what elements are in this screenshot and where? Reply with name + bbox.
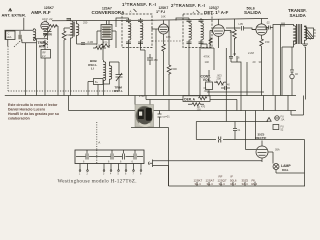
label CONT VOL [201,74,212,82]
svg-text:VOL.: VOL. [203,78,211,82]
dashed gang line to ant trimmer [47,39,49,50]
capacitor series 282 [282,23,284,27]
svg-text:OSC.L: OSC.L [114,89,123,93]
wire right drops to 109.5 [264,96,289,111]
compartment digits [83,160,134,163]
wire det resistor conns [214,48,226,100]
wire rectifier conns [246,150,274,164]
wire det grid/diode [201,31,214,49]
2nd IF trimmer caps [187,20,204,44]
capacitor pack C-D [134,154,136,160]
wire 2nd IF drops [189,44,207,96]
dashed shield link between IF boxes [152,40,183,42]
ground speaker [302,42,308,47]
resistor RF cathode 8.2K [43,30,47,48]
core lines RF transformer [73,22,74,37]
svg-text:Westinghouse modelo H-127T6Z.: Westinghouse modelo H-127T6Z. [58,179,137,185]
padder box osc [88,79,103,96]
wire transformer primary conns [281,25,294,96]
svg-text:RECTIF: RECTIF [256,136,267,140]
svg-text:colaboración: colaboración [8,116,30,120]
resistor output cathode 150 [260,35,270,47]
svg-text:250: 250 [83,21,88,25]
trimmer blob gang link [13,31,36,48]
wires 2nd IF transformer [176,18,201,46]
svg-text:15K: 15K [66,34,71,37]
capacitor 16-40 horizontal [221,84,230,91]
svg-text:1ºTRANSF. F.-I: 1ºTRANSF. F.-I [122,2,156,7]
svg-text:.02: .02 [266,21,270,25]
editorial note red text [8,103,59,121]
svg-text:A: A [98,141,100,145]
label TRIM ANT [38,41,47,49]
svg-text:250: 250 [48,34,53,37]
capacitor pack C-B [111,154,113,160]
wire filament bus [169,185,306,187]
node A dotted riser [97,122,101,150]
tube V4 12SQ7 det [210,19,231,36]
wire top bus B+ [52,18,268,20]
main bus B-minus [5,95,296,97]
warning triangle [267,118,271,122]
resistor det load [216,74,224,85]
1st IF secondary coil [141,23,143,40]
svg-text:2ºTRANSF. F.-I: 2ºTRANSF. F.-I [171,3,205,8]
wires 1st IF transformer [109,18,141,46]
svg-text:3A-4: 3A-4 [207,182,213,186]
svg-text:AMP. R.F: AMP. R.F [31,10,51,15]
svg-text:470: 470 [201,106,206,109]
wire vertical 247 [246,62,248,96]
speaker voice coil [306,28,314,40]
2nd IF secondary coil [201,23,203,40]
resistor below DER [188,103,206,109]
svg-text:SALIDA: SALIDA [244,10,262,15]
svg-text:2.2M: 2.2M [88,41,94,44]
tube V5 50L6 output [252,19,267,35]
wire plug top prong [158,161,263,162]
wire lower-right link [207,92,304,115]
wire vertical 305 [305,47,307,100]
svg-text:.003: .003 [217,74,223,78]
wire RF stage verticals [45,26,58,96]
wire vertical 292 electrolytic branch [291,47,293,96]
capacitor grid converter [81,41,93,44]
svg-text:.5A: .5A [281,119,285,122]
svg-text:ACV .22: ACV .22 [42,17,53,21]
1st IF transformer shield box (dashed) [122,14,152,48]
lower bus line [146,96,237,100]
connector pins row [79,164,142,172]
dashed gang line vertical left [7,46,9,91]
svg-text:450: 450 [154,59,159,62]
svg-text:3A-4: 3A-4 [242,182,248,186]
wire coupling to output [231,56,241,111]
label 35Z5 RECTIF [256,132,267,140]
svg-text:ANT. EXTER.: ANT. EXTER. [2,12,26,17]
trimmer capacitor TRIM ANT [44,27,52,39]
resistor screen 150K [167,65,177,75]
volume control pot [206,70,213,96]
filament tap ticks [197,182,255,186]
resistor 1M grid output [230,30,237,40]
stage label TRANSF SALIDA [288,8,307,18]
svg-text:DET. 1ª A-F: DET. 1ª A-F [204,10,228,15]
wire plug bottom prong [158,140,305,187]
svg-text:DIAL: DIAL [282,168,289,172]
resistor DER. A [183,96,210,102]
label TRIM OSC.L [114,85,123,93]
capacitor .05 det out [229,48,237,62]
capacitor electrolytic 40 [290,70,299,79]
tube base connector box [75,150,144,164]
antenna coil L1 [33,29,35,41]
wire 1st IF drops [129,42,146,96]
wire RF coil connections [64,21,77,96]
svg-text:uc=01: uc=01 [163,115,171,119]
svg-text:HoraEl le da las gracias por s: HoraEl le da las gracias por su [8,112,59,116]
antenna terminal box [5,31,15,40]
wire line to rect filter [196,111,268,150]
value 470 resistor top [100,41,110,48]
svg-text:ANT: ANT [39,45,47,49]
wire output cathode down [261,48,263,96]
wire speaker conns [305,26,307,42]
capacitor pack C-C [123,154,125,160]
svg-text:LI: LI [91,67,94,71]
capacitor mid 147 [147,54,158,65]
tube V6 35Z5 rectifier [256,141,268,159]
capacitor 0.05 coupling [239,22,256,31]
svg-text:3A-4: 3A-4 [230,182,236,186]
svg-text:L05: L05 [239,22,244,26]
resistor screen 15K [62,31,71,40]
svg-text:1M: 1M [230,30,234,34]
svg-text:140: 140 [205,60,210,64]
speaker terminal letters [314,29,316,38]
tube V1 12SK7 RF amp [41,21,49,30]
wire vertical x25 [25,43,27,96]
node A arrow 1st IF [130,9,137,14]
wires output grid [226,19,241,56]
svg-text:2.5M: 2.5M [139,95,145,98]
resistor IF cathode [162,44,166,53]
svg-text:470: 470 [103,41,108,45]
AC plug [148,160,157,168]
wire internal bus of box [76,156,143,158]
capacitor 01 on riser [158,114,171,119]
lamp pilot [273,164,279,170]
wire mid verticals [131,111,169,187]
svg-text:05A: 05A [275,148,280,152]
trimmer TRIM OSC [116,73,123,82]
value labels right mid [204,51,262,64]
svg-text:C: C [314,35,316,38]
switch box [273,125,284,132]
svg-text:16K: 16K [161,14,166,18]
wire lower bus drops [200,96,237,122]
svg-text:SALIDA: SALIDA [290,13,307,18]
svg-text:16K: 16K [166,35,171,39]
pin numbers [79,174,142,176]
capacitor pack C-A [86,154,88,160]
svg-text:150K: 150K [171,67,177,71]
wire osc trimmer conns [118,62,120,91]
svg-text:DER. A: DER. A [184,97,195,101]
svg-text:Daniel Horacio Lucero: Daniel Horacio Lucero [8,107,45,111]
capacitor filter branch [233,122,241,140]
wire cap top ticks [87,150,135,154]
svg-text:A: A [130,10,132,14]
svg-text:100: 100 [197,109,202,112]
wire output plate run [266,25,281,96]
output transformer TRANSF SALIDA [294,24,307,44]
wire power top row [196,139,304,141]
resistor box RF 2.2 [41,50,51,59]
label LAMP DIAL [281,164,291,172]
svg-text:150: 150 [265,40,270,44]
capacitor series on line [216,137,223,143]
1st IF trimmer caps [126,20,143,44]
osc coil BOB OSC [104,62,112,81]
wire IF amp cathode [163,34,165,44]
resistor diode load [209,38,212,46]
resistor RF screen horizontal [50,25,59,28]
wire RF plate to bus [46,21,48,22]
svg-text:2.2: 2.2 [42,55,46,58]
tube V2 12SA7 converter [97,21,116,40]
wire det drops [200,31,231,96]
svg-text:Este circuito lo envía el lect: Este circuito lo envía el lector [8,103,58,107]
node A arrow 2nd IF [193,10,200,15]
wire box drops [44,58,46,96]
svg-text:3A-4: 3A-4 [219,182,225,186]
svg-text:3A-4: 3A-4 [251,182,257,186]
svg-text:CONVERSORA: CONVERSORA [92,10,126,15]
antenna symbol [9,8,12,12]
svg-text:1ª F-I: 1ª F-I [156,10,165,14]
wire converter grid [77,31,98,44]
capacitor top of RF coil [67,19,72,21]
2nd IF primary coil [189,23,191,40]
fuse symbol [275,116,285,122]
RF plate coil [71,21,79,38]
svg-text:470K: 470K [204,55,210,59]
filament string labels [194,175,258,186]
capacitor RF bypass 250 [43,34,53,37]
wire left col down [36,39,38,96]
wire below terminal box [7,40,9,47]
svg-text:3A-4: 3A-4 [195,182,201,186]
capacitor 0.02 plate [266,21,273,30]
wire IF drops [156,21,169,96]
1st IF primary coil [129,23,131,40]
wire converter verticals [103,31,116,60]
value labels near 205,88 [197,87,209,112]
label BOB OSC.L [88,59,98,71]
svg-text:LEA: LEA [7,36,12,39]
2nd IF transformer shield box (dashed) [183,14,212,48]
svg-text:2.2M: 2.2M [248,51,254,55]
second lower line [69,96,297,111]
svg-text:22K: 22K [96,44,101,47]
tube V3 12SK7 IF amp [152,21,169,35]
resistor 22K under converter [93,44,106,49]
svg-text:.003: .003 [204,90,209,93]
wire antenna lead-in down [23,18,25,31]
wire antenna horizontals [5,29,48,40]
dashed divider in box [96,150,98,164]
wire osc coil conns [104,60,120,96]
dashed gang line bottom [8,90,118,92]
photo thumbnail [135,105,154,128]
